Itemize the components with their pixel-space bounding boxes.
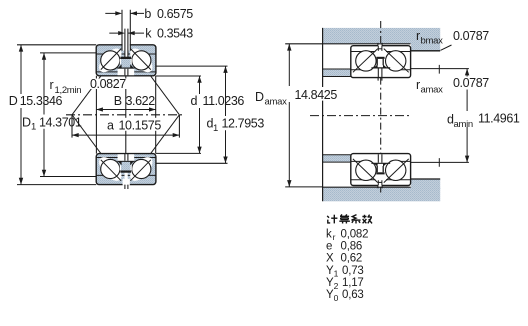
svg-text:11.0236: 11.0236 [203, 94, 245, 108]
svg-text:r: r [416, 78, 420, 92]
center structure right-fig bottom [371, 154, 390, 188]
svg-text:1: 1 [31, 122, 36, 133]
dimension D extension lines [17, 45, 96, 185]
svg-text:1: 1 [334, 269, 339, 279]
boss side wedges (bottom) [118, 161, 134, 165]
label D [19, 95, 64, 107]
svg-text:0,63: 0,63 [342, 289, 364, 301]
center base line (top) [117, 67, 134, 69]
center slot white (top section) [123, 44, 130, 57]
svg-text:0.0827: 0.0827 [90, 77, 126, 91]
dimension D1 extension lines [40, 53, 96, 177]
side-face extension line right [155, 76, 157, 154]
bottom bearing section body [96, 154, 156, 185]
dimension Damax line [287, 44, 291, 187]
dimension D1 line [42, 53, 46, 177]
housing bottom shoulder line [411, 178, 441, 180]
label a [105, 118, 160, 131]
svg-text:b: b [144, 7, 151, 21]
contact line top-left [72, 46, 123, 115]
svg-text:r: r [333, 232, 336, 242]
ball diagonal top-right [130, 49, 150, 70]
vertical centerline right figure [380, 21, 382, 194]
outer ring boundary line (top section) [97, 53, 156, 55]
k slot lines [125, 29, 128, 57]
ball top-left [101, 51, 120, 70]
ball diagonal bottom-right [130, 160, 150, 181]
shaft strip top borders [323, 69, 351, 77]
svg-text:k: k [326, 228, 332, 240]
svg-text:amin: amin [454, 119, 473, 130]
diagonal right-fig bottom-right [384, 159, 409, 183]
label d [189, 95, 247, 107]
svg-text:d: d [191, 94, 198, 108]
ball diagonal top-left [101, 49, 121, 70]
svg-text:0.0787: 0.0787 [453, 76, 489, 90]
dimension a line [72, 133, 179, 137]
ball right-fig bottom-left [356, 160, 376, 180]
dimension d1 extension lines [156, 66, 228, 163]
dimension damin extension lines [411, 69, 469, 163]
bottom box ring lines [352, 161, 411, 179]
center base line (bottom) [117, 160, 134, 162]
center spacer bar (top) [120, 57, 131, 59]
svg-text:0,62: 0,62 [341, 253, 363, 265]
housing top band [323, 28, 441, 44]
side-face extension line left [95, 76, 97, 154]
housing top band bore line [323, 43, 411, 45]
bearing bottom box [351, 154, 411, 186]
top section border [96, 45, 156, 76]
center slot white (bottom section) [123, 173, 130, 186]
inner ring split gap white (bottom) [118, 154, 135, 160]
vertical centerline between sections [125, 76, 127, 154]
top box ring lines [352, 52, 411, 70]
svg-text:1,2min: 1,2min [55, 85, 82, 96]
svg-text:0.6575: 0.6575 [157, 7, 193, 21]
svg-text:k: k [145, 27, 152, 41]
svg-text:15.3346: 15.3346 [20, 94, 63, 108]
housing bottom shoulder [411, 179, 440, 189]
inner ring boundary line (top section) [97, 71, 156, 73]
ball bottom-right [132, 159, 151, 178]
svg-text:14.8425: 14.8425 [295, 88, 338, 102]
outer ring boundary line (bottom section) [97, 174, 156, 176]
bearing top box [351, 46, 411, 78]
svg-text:D: D [255, 90, 264, 104]
inner ring boundary line (bottom section) [97, 157, 156, 159]
svg-text:amax: amax [265, 96, 288, 107]
raceway pockets top section [95, 45, 156, 76]
contact line bottom-right [129, 115, 180, 183]
svg-text:bmax: bmax [421, 35, 444, 46]
b slot lines [122, 10, 130, 51]
bore slot stubs (bottom face) [125, 185, 128, 189]
housing bottom band bore line [323, 186, 411, 188]
axis centerline (horizontal, dash-dot) [66, 114, 183, 116]
dimension D line [19, 45, 23, 185]
center boss (top) [121, 59, 131, 68]
shaft shoulder strip top [323, 69, 351, 76]
housing top shoulder [411, 42, 440, 51]
svg-text:0,73: 0,73 [342, 265, 364, 277]
inner-ring split lines (top) [125, 69, 128, 76]
svg-text:11.4961: 11.4961 [478, 112, 520, 126]
dimension d line [197, 76, 201, 153]
inner-ring split lines (bottom) [125, 154, 128, 161]
svg-text:14.3701: 14.3701 [39, 116, 82, 130]
dimension b [105, 11, 144, 15]
diagonal right-fig top-right [384, 49, 409, 73]
rbmax leader [441, 45, 452, 50]
svg-text:D: D [22, 116, 31, 130]
table heading 计算系数 (drawn strokes) [327, 214, 372, 223]
svg-text:0,082: 0,082 [341, 228, 369, 240]
shaft end ticks [438, 65, 440, 167]
ball bottom-left [101, 159, 120, 178]
diagonal right-fig bottom-left [353, 159, 378, 183]
svg-text:12.7953: 12.7953 [222, 117, 265, 131]
label r 1,2min 0.0827 [89, 79, 128, 90]
shaft strip bottom borders [323, 155, 351, 162]
svg-text:r: r [416, 29, 420, 43]
inner ring split gap white (top) [118, 69, 135, 75]
diagonal right-fig top-left [353, 49, 378, 73]
ball top-right [132, 51, 151, 70]
dimension d1 line [223, 66, 227, 163]
svg-text:10.1575: 10.1575 [119, 118, 162, 132]
center structure right-fig top [371, 43, 390, 81]
svg-text:0.3543: 0.3543 [157, 27, 193, 41]
raceway pockets bottom section [95, 153, 156, 184]
svg-text:0: 0 [334, 293, 339, 303]
svg-text:3.622: 3.622 [126, 94, 156, 108]
housing top shoulder line [411, 50, 441, 52]
svg-text:0,86: 0,86 [341, 241, 363, 253]
dimension d extension lines [156, 76, 201, 153]
svg-text:a: a [107, 118, 114, 132]
ball right-fig top-left [356, 51, 376, 71]
shaft shoulder strip bottom [323, 155, 351, 162]
axis centerline right figure [310, 115, 411, 117]
svg-text:0.0787: 0.0787 [453, 29, 489, 43]
ball right-fig bottom-right [386, 160, 406, 180]
svg-text:amax: amax [421, 84, 444, 95]
dimension damin line [465, 69, 469, 163]
svg-text:D: D [9, 94, 18, 108]
svg-text:e: e [326, 241, 332, 253]
svg-text:1: 1 [213, 123, 218, 134]
boss side wedges (top) [118, 64, 134, 68]
housing bottom band [323, 188, 441, 202]
center spacer bar (bottom) [120, 170, 131, 172]
svg-text:X: X [326, 253, 334, 265]
top bearing section body [96, 45, 156, 76]
svg-text:2: 2 [334, 281, 339, 291]
bottom section border [96, 154, 156, 185]
center boss (bottom) [121, 162, 131, 171]
dimension B [96, 107, 156, 111]
boss side gaps (top) [120, 59, 132, 64]
svg-text:r: r [50, 78, 54, 92]
dimension a ticks [72, 115, 179, 138]
contact line top-right [129, 46, 180, 115]
contact line bottom-left [72, 115, 123, 183]
dimension k [109, 31, 144, 35]
svg-text:B: B [114, 94, 122, 108]
ball diagonal bottom-left [101, 160, 121, 181]
ball right-fig top-right [386, 51, 406, 71]
svg-text:1,17: 1,17 [342, 277, 364, 289]
figure left edge line [322, 28, 324, 201]
boss side gaps (bottom) [120, 165, 132, 170]
dimension Damax extension lines [285, 44, 322, 187]
